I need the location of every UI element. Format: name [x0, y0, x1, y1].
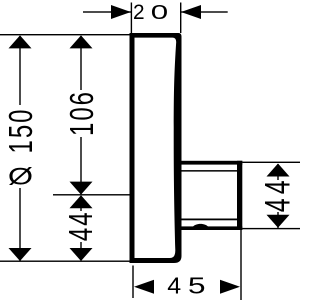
dim 20: left leader [83, 11, 131, 12]
dim 44 right: bottom extension line [242, 228, 300, 229]
knob handle bump [193, 224, 209, 227]
dim 44 left: bottom arrow [70, 248, 93, 261]
svg-text:Ø: Ø [8, 163, 33, 190]
dim 45: right arrow [220, 280, 240, 294]
plate body (side profile, thick outline) [130, 33, 182, 263]
dim 20: right arrow [181, 5, 201, 19]
dim 44 left: line lower [80, 242, 81, 260]
dim D150: bottom arrow [9, 248, 32, 261]
dim 106: top arrow [70, 35, 93, 48]
dim D150: line lower [19, 188, 20, 261]
knob bottom edge [182, 226, 243, 230]
dim 106: line lower [80, 137, 81, 194]
left top extension line [0, 34, 130, 35]
dim 44 left: top arrow [70, 195, 93, 208]
dim 44 right: top arrow [267, 164, 290, 177]
dim 45: right extension line [240, 230, 241, 300]
mid tick line (106/44 boundary) [53, 194, 130, 195]
svg-text:44: 44 [63, 210, 100, 241]
svg-text:150: 150 [3, 107, 40, 153]
dim 106: line upper [80, 36, 81, 90]
dim D150: top arrow [9, 35, 32, 48]
dim 45: left extension line [132, 266, 133, 299]
dim 44 right: line upper [277, 164, 278, 180]
dim 20: left arrow [111, 5, 131, 19]
dim 45: left arrow [134, 280, 154, 294]
dim 20: right leader [181, 11, 228, 12]
dim 106: bottom arrow [70, 182, 93, 195]
svg-text:106: 106 [64, 90, 101, 136]
dim 44 right: bottom arrow [267, 215, 290, 228]
dim 44 right: line lower [277, 212, 278, 228]
dim D150: line upper [19, 36, 20, 105]
left bottom extension line [0, 261, 130, 262]
dim 44 right: top extension line [242, 162, 300, 163]
knob top inner line [182, 170, 239, 172]
svg-text:0: 0 [151, 0, 168, 23]
dim 44 left: line upper [80, 196, 81, 211]
knob top edge [182, 161, 243, 165]
svg-text:2: 2 [133, 1, 145, 24]
dim 20: right extension line [180, 3, 181, 34]
knob right edge [237, 161, 242, 230]
svg-text:44: 44 [259, 176, 297, 212]
svg-text:5: 5 [188, 273, 206, 298]
knob bottom inner line [182, 219, 239, 221]
dim 20: left extension line [131, 3, 132, 34]
svg-text:4: 4 [167, 274, 181, 300]
